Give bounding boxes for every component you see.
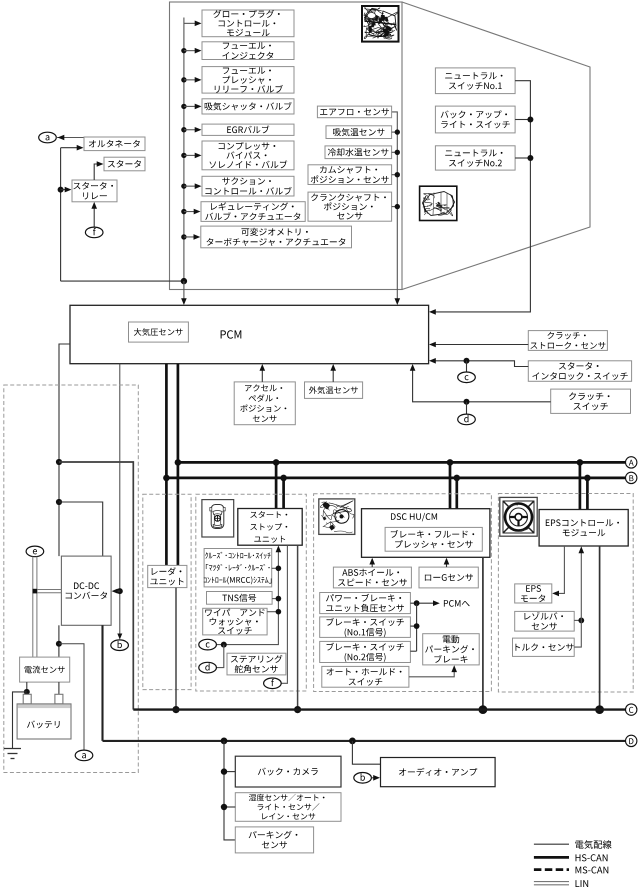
box: barometric pressure sensor (大気圧センサ) bbox=[129, 322, 189, 342]
label: PCM bbox=[221, 330, 242, 338]
wire: node d elbow bbox=[216, 645, 223, 668]
ECU: EPS control module box bbox=[539, 510, 628, 547]
ground symbol bbox=[4, 749, 21, 759]
wire: clutch switch to PCM bottom bbox=[413, 366, 551, 402]
box: ABS wheel speed sensor bbox=[333, 567, 411, 588]
node c (starter interlock) bbox=[458, 372, 476, 383]
wire: collector to start-stop unit bbox=[216, 547, 278, 645]
CAN drop: bus B to DSC bbox=[455, 478, 458, 509]
wire: actuator feed line vertical bbox=[183, 18, 185, 282]
bus A (HS-CAN horizontal) bbox=[178, 461, 626, 464]
wire: No.2 elbow bbox=[410, 650, 416, 652]
engine compartment outline box bbox=[170, 2, 403, 290]
box: steering angle sensor (ステアリング舵角センサ) bbox=[227, 653, 286, 675]
wire: cruise switch stub bbox=[272, 567, 279, 569]
wire: alternator to node a bbox=[56, 137, 84, 139]
box: auto hold switch bbox=[322, 666, 409, 687]
junction dot: neutral switch No.2 tap bbox=[515, 157, 530, 159]
LIN double line: e down to current sensor bbox=[32, 557, 34, 658]
box: wiper and washer switch bbox=[203, 608, 267, 635]
junction dot: node b to DC-DC tap bbox=[117, 588, 123, 594]
node d (clutch switch) bbox=[458, 414, 476, 425]
bus B (HS-CAN horizontal) bbox=[166, 477, 625, 480]
junction dot: node d tap bbox=[464, 399, 470, 405]
LIN double line: into DC-DC left bbox=[37, 589, 61, 591]
wire: EPS module to bus C bbox=[599, 546, 601, 710]
legend label: HS-CAN bbox=[576, 854, 608, 861]
box: compressor bypass solenoid valve bbox=[202, 141, 294, 170]
wire: feed stub to EGR valve bbox=[181, 127, 201, 133]
battery (バッテリ) bbox=[17, 704, 71, 739]
wire: brake switch collector vertical bbox=[416, 603, 418, 651]
wire: trunk into starter relay bbox=[61, 189, 67, 191]
box: accelerator pedal position sensor bbox=[234, 382, 295, 425]
CAN drop: bus A to DSC bbox=[449, 462, 452, 508]
CAN drop: bus B to EPS module bbox=[586, 478, 589, 510]
junction dot: DSC on bus C bbox=[479, 705, 488, 714]
box: starter relay (スタータ・リレー) bbox=[72, 180, 117, 202]
wire: ambient temp sensor to PCM bbox=[332, 366, 334, 382]
box: resolver sensor (レゾルバ・センサ) bbox=[515, 611, 575, 631]
box: coolant temp sensor (冷却水温センサ) bbox=[325, 146, 392, 159]
wire: feed stub to regulating valve actuator bbox=[181, 209, 200, 215]
box: cruise control switch (MRCC) bbox=[204, 549, 272, 587]
CAN drop: bus A to start-stop unit bbox=[275, 462, 278, 508]
wire: bus A left extension and bus C riser bbox=[59, 462, 133, 710]
node d (steering cluster) bbox=[199, 662, 217, 673]
icon: car top view (start-stop) bbox=[202, 500, 234, 537]
box: regulating valve actuator bbox=[201, 202, 305, 222]
junction dot: back-up light switch tap bbox=[515, 119, 530, 121]
junction dot: branch to node a bbox=[56, 641, 62, 647]
wire: stub intake air temp sensor (吸気温センサ) bbox=[392, 131, 398, 133]
wire: node f to start-stop unit bbox=[281, 545, 287, 683]
wire: accel pedal sensor to PCM bbox=[261, 366, 263, 382]
wire: DC-DC bottom to current sensor bbox=[58, 625, 60, 657]
box: clutch switch bbox=[551, 389, 631, 413]
box: starter (スタータ) bbox=[104, 157, 145, 171]
wire: feed stub to variable geometry turbocharger actuator bbox=[181, 234, 200, 240]
CAN drop: bus B to start-stop unit bbox=[282, 478, 285, 509]
transmission area polygon bbox=[402, 2, 590, 290]
dashed container: power supply zone bbox=[4, 385, 139, 773]
wire: clutch stroke sensor to PCM bbox=[431, 344, 529, 346]
box: alternator (オルタネータ) bbox=[84, 137, 145, 151]
label: DSC HU/CM bbox=[391, 513, 437, 522]
ECU: audio amp box (オーディオ・アンプ) bbox=[381, 758, 496, 787]
legend: electrical wiring line bbox=[534, 843, 569, 845]
box: low-G sensor (ローGセンサ) bbox=[419, 567, 478, 588]
wire: starter relay to starter bbox=[94, 164, 98, 180]
wire: feed stub to fuel pressure relief valve bbox=[181, 77, 201, 83]
box: clutch stroke sensor bbox=[528, 331, 607, 351]
junction dot: trunk2 on bus A bbox=[175, 459, 182, 466]
box: ambient temp sensor (外気温センサ) bbox=[305, 382, 363, 399]
box: brake switch (No.1 signal) bbox=[320, 617, 411, 638]
dashed container: radar unit bbox=[143, 494, 191, 689]
icon: transmission (pictogram) bbox=[420, 186, 457, 220]
CAN drop: bus A to EPS module bbox=[579, 462, 582, 509]
wire: current sensor to ground/battery minus bbox=[26, 682, 28, 698]
node f (starter relay) bbox=[85, 227, 103, 238]
wire: feed line into PCM top bbox=[183, 281, 185, 303]
box: fuel pressure relief valve bbox=[202, 67, 294, 94]
junction dot: bus A left tap bbox=[56, 459, 62, 465]
wire: EPS module to EPS motor bbox=[554, 546, 565, 593]
bus terminal B bbox=[626, 472, 637, 483]
box: glow plug control module bbox=[202, 10, 294, 37]
wire: ABS sensor to DSC bbox=[371, 559, 373, 567]
junction dot: radar on bus C bbox=[172, 706, 179, 713]
box: neutral switch No.1 bbox=[435, 68, 515, 94]
bus C (horizontal) bbox=[133, 708, 625, 710]
box: variable geometry turbocharger actuator bbox=[201, 226, 352, 248]
ECU: PCM box bbox=[70, 305, 429, 363]
box: EGR valve bbox=[202, 124, 294, 135]
wire: PCM left output down to DC-DC bbox=[59, 344, 70, 556]
wire: camera cluster drop bbox=[224, 741, 235, 840]
ECU: DC-DC converter box bbox=[61, 556, 111, 625]
box: camshaft position sensor bbox=[308, 165, 392, 185]
wire: low-G sensor to DSC bbox=[446, 559, 448, 567]
wire: DSC to bus C bbox=[482, 557, 484, 709]
legend: HS-CAN line bbox=[534, 856, 569, 859]
box: air flow sensor (エアフロ・センサ) bbox=[317, 106, 391, 118]
box: electric parking brake bbox=[423, 634, 480, 665]
wire: feed stub to fuel injector bbox=[181, 48, 201, 54]
box: current sensor (電流センサ) bbox=[20, 657, 70, 682]
node e (LIN) bbox=[26, 546, 44, 557]
wire: stub coolant temp sensor (冷却水温センサ) bbox=[392, 151, 398, 153]
wire: LIN line PCM to node b bbox=[119, 364, 121, 639]
bus terminal D bbox=[626, 735, 637, 746]
junction square: LIN tap to DC-DC bbox=[33, 589, 38, 594]
wire: sensor collector line bbox=[392, 112, 398, 304]
icon: brake unit (pictogram) bbox=[319, 499, 355, 535]
wire: stub camshaft position sensor bbox=[392, 174, 398, 176]
node b (audio amp) bbox=[354, 773, 372, 784]
legend label: MS-CAN bbox=[576, 866, 609, 873]
junction dot: node c tap bbox=[464, 358, 470, 364]
junction dot: start-stop on bus C bbox=[294, 706, 301, 713]
wire: branch into DC-DC top right bbox=[59, 502, 103, 556]
box: power brake unit vacuum sensor bbox=[320, 593, 411, 614]
wire: vacuum sensor to PCM label bbox=[410, 602, 434, 604]
box: crankshaft position sensor bbox=[308, 192, 392, 221]
node b (below DC-DC) bbox=[111, 640, 129, 651]
icon: engine (pictogram top) bbox=[362, 6, 399, 42]
box: humidity / auto light / rain sensor bbox=[235, 793, 341, 822]
node f (steering angle) bbox=[264, 678, 282, 689]
box: parking sensor (パーキング・センサ) bbox=[235, 827, 313, 853]
box: neutral switch No.2 bbox=[435, 146, 515, 170]
box: TNS signal (TNS信号) bbox=[207, 592, 273, 605]
icon: steering wheel (pictogram) bbox=[500, 497, 537, 536]
box: suction control valve bbox=[202, 176, 294, 196]
wire: current sensor to battery plus bbox=[58, 682, 60, 698]
wire: feed stub to compressor bypass solenoid valve bbox=[181, 153, 201, 159]
wire: start-stop unit to bus C bbox=[297, 545, 299, 709]
wire: branch to node a (bottom) bbox=[59, 644, 84, 750]
HS-CAN trunk 2 from PCM (to bus A / radar) bbox=[177, 364, 180, 566]
battery terminal right bbox=[55, 694, 63, 704]
node a (battery zone bottom) bbox=[75, 750, 93, 761]
box: back-up light switch bbox=[435, 106, 515, 133]
junction dot: audio amp drop on bus D bbox=[349, 738, 356, 745]
HS-CAN trunk 1 from PCM (to bus B / radar) bbox=[165, 364, 168, 566]
dashed container: DSC cluster bbox=[314, 494, 492, 692]
junction dot: vacuum sensor collector bbox=[414, 600, 420, 606]
bus terminal A bbox=[626, 457, 637, 468]
junction dot on relay trunk bbox=[58, 187, 64, 193]
box: EPS motor (EPSモータ) bbox=[515, 584, 552, 603]
legend label: 電気配線 bbox=[575, 840, 611, 849]
wire: auto hold to parking brake bbox=[409, 667, 454, 677]
bus terminal C bbox=[626, 704, 637, 715]
junction dot: camera drop on bus D bbox=[221, 738, 228, 745]
box: torque sensor (トルク・センサ) bbox=[513, 638, 575, 656]
wire: feed stub to intake shutter valve bbox=[181, 104, 201, 110]
legend: LIN double line bbox=[534, 881, 569, 883]
box: brake switch (No.2 signal) bbox=[320, 641, 411, 662]
wire: feed into alternator bbox=[61, 147, 78, 149]
node c (steering cluster) bbox=[199, 639, 217, 650]
wire: back camera stub bbox=[224, 771, 235, 773]
box: intake air temp sensor (吸気温センサ) bbox=[326, 126, 392, 139]
junction dot: node d joins collector bbox=[221, 642, 227, 648]
box: brake fluid pressure sensor bbox=[385, 527, 482, 551]
box: starter interlock switch bbox=[528, 361, 631, 382]
ECU: DSC HU/CM box bbox=[362, 509, 490, 558]
bus D (horizontal from DC-DC) bbox=[103, 740, 626, 742]
node a (top left) bbox=[39, 132, 57, 143]
wire: feed stub to glow plug control module bbox=[184, 21, 202, 27]
box: radar unit (レーダ・ユニット) bbox=[148, 565, 187, 587]
box: fuel injector bbox=[202, 42, 294, 60]
legend label: LIN bbox=[576, 880, 589, 887]
dashed container: start-stop unit cluster bbox=[196, 494, 306, 691]
box: intake shutter valve bbox=[202, 99, 294, 114]
label: to PCM (PCMへ) bbox=[444, 600, 470, 607]
box: back camera (バック・カメラ) bbox=[235, 756, 341, 787]
wire: No.1 stub bbox=[410, 625, 416, 627]
wire: torque sensor collector to EPS module bbox=[574, 548, 581, 647]
wire: stub crankshaft position sensor bbox=[392, 206, 398, 208]
junction dot: DC-DC feed branch bbox=[56, 499, 62, 505]
wire: TNS stub bbox=[272, 598, 278, 600]
junction dot: feed line meets relay trunk bbox=[181, 278, 187, 284]
legend: MS-CAN line bbox=[534, 868, 569, 871]
wire: starter interlock switch to PCM bbox=[431, 361, 529, 367]
wire: humidity sensor stub bbox=[224, 806, 235, 808]
wire: feed stub to suction control valve bbox=[181, 183, 201, 189]
power line: DC-DC to bus D bbox=[101, 625, 103, 741]
ECU: start-stop unit box bbox=[238, 509, 302, 546]
junction dot: trunk1 on bus B bbox=[163, 475, 170, 482]
junction dot: EPS on bus C bbox=[595, 705, 604, 714]
wire: node f to starter relay bbox=[93, 204, 95, 228]
battery terminal left bbox=[23, 694, 31, 704]
wire: resolver stub bbox=[574, 619, 581, 621]
dashed container: EPS cluster bbox=[498, 494, 633, 693]
wire: switches collector to PCM bbox=[431, 81, 531, 312]
wire: audio amp feed bbox=[352, 741, 380, 764]
wire: starter relay trunk vertical bbox=[60, 148, 62, 281]
wire: relay trunk to PCM feed junction bbox=[61, 280, 184, 282]
wire: node b arrow into audio amp bbox=[371, 777, 376, 779]
wire: wiper stub bbox=[267, 611, 278, 613]
wire: radar unit to bus C bbox=[175, 588, 177, 710]
